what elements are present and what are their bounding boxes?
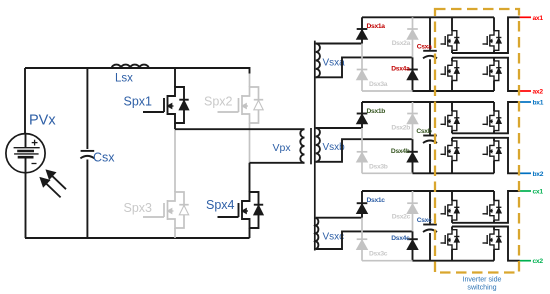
svg-text:Dsx1a: Dsx1a	[367, 23, 386, 30]
wire left rail upper	[24, 68, 26, 134]
mosfet inverter b cell2 left	[451, 138, 453, 141]
wire dc+ rail b	[362, 101, 494, 103]
mosfet inverter b cell2 right	[493, 138, 495, 141]
diode Dsx2a	[412, 17, 414, 57]
svg-text:Dsx4c: Dsx4c	[391, 235, 410, 242]
svg-text:Csxc: Csxc	[417, 217, 432, 224]
wire cell2 b top rail	[452, 137, 494, 139]
wire cell2 c top rail	[452, 226, 494, 228]
wire dc- rail b grey	[362, 172, 413, 174]
svg-text:Dsx2b: Dsx2b	[391, 125, 410, 132]
svg-text:Spx2: Spx2	[204, 95, 233, 109]
mosfet inverter b cell1 left	[451, 102, 453, 111]
terminal ax2	[520, 90, 531, 92]
transformer core inner line	[310, 128, 312, 164]
diode Dsx2c	[412, 191, 414, 231]
terminal ax1	[520, 16, 531, 18]
capacitor Csxb	[429, 102, 431, 135]
svg-text:PVx: PVx	[29, 113, 56, 129]
dashed box inverter side switching	[435, 9, 519, 273]
svg-text:switching: switching	[467, 284, 496, 292]
mosfet inverter c cell1 left	[451, 191, 453, 201]
svg-text:Dsx3c: Dsx3c	[369, 251, 388, 258]
wire output tap ax1	[494, 17, 520, 53]
mosfet inverter a cell2 right	[493, 58, 495, 61]
svg-text:Spx1: Spx1	[124, 95, 153, 109]
diode Dsx3b	[361, 128, 363, 173]
wire dc- rail b black	[413, 172, 495, 174]
svg-text:Dsx3b: Dsx3b	[369, 163, 388, 170]
pv light arrow 1	[51, 175, 66, 189]
svg-text:cx2: cx2	[533, 258, 544, 265]
svg-text:Lsx: Lsx	[115, 73, 133, 85]
mosfet inverter a cell1 right	[493, 17, 495, 30]
svg-text:Spx4: Spx4	[206, 198, 235, 212]
mosfet Spx3	[174, 129, 176, 192]
svg-text:Csxa: Csxa	[417, 43, 432, 50]
wire cell1 b bottom rail	[452, 132, 494, 134]
svg-text:bx1: bx1	[533, 100, 544, 107]
pv source PVx	[6, 134, 45, 173]
diode Dsx4b	[412, 139, 414, 173]
transformer core outer line	[314, 41, 316, 251]
svg-text:ax1: ax1	[533, 15, 544, 22]
diode Dsx1b	[361, 102, 363, 128]
terminal cx1	[520, 190, 531, 192]
terminal cx2	[520, 260, 531, 262]
diode Dsx2b	[412, 102, 414, 139]
wire output tap ax2	[494, 58, 520, 91]
wire output tap cx2	[494, 227, 520, 261]
inductor Lsx	[112, 65, 149, 68]
diode Dsx1a	[361, 17, 363, 43]
capacitor Csxa	[429, 17, 431, 50]
svg-text:Dsx4a: Dsx4a	[391, 66, 410, 73]
svg-text:Dsx4b: Dsx4b	[391, 148, 410, 155]
transformer primary winding Vpx	[300, 129, 304, 163]
diode Dsx1c	[361, 191, 363, 218]
svg-text:bx2: bx2	[533, 171, 544, 178]
mosfet inverter b cell1 right	[493, 102, 495, 111]
wire cell1 c bottom rail	[452, 222, 494, 224]
svg-text:Vsxc: Vsxc	[323, 232, 345, 243]
wire output tap cx1	[494, 191, 520, 223]
pv light arrow 2	[45, 183, 60, 198]
svg-text:Csxb: Csxb	[416, 128, 431, 135]
wire secondary c top lead	[316, 217, 362, 219]
svg-text:Spx3: Spx3	[124, 201, 153, 215]
mosfet inverter c cell2 right	[493, 227, 495, 230]
mosfet inverter c cell1 right	[493, 191, 495, 201]
terminal bx2	[520, 172, 531, 174]
wire dc- rail c grey	[362, 260, 413, 262]
mosfet inverter a cell2 left	[451, 58, 453, 61]
capacitor Csx	[86, 68, 88, 149]
svg-text:Dsx1c: Dsx1c	[367, 197, 386, 204]
transformer secondary winding Vsxa	[316, 44, 320, 78]
mosfet inverter a cell1 left	[451, 17, 453, 30]
svg-text:ax2: ax2	[533, 89, 544, 96]
wire dc+ rail a	[362, 16, 494, 18]
svg-text:Dsx2a: Dsx2a	[392, 40, 411, 47]
wire bottom rail	[25, 237, 250, 239]
diode Dsx3a	[361, 44, 363, 92]
svg-text:cx1: cx1	[533, 189, 544, 196]
svg-text:Dsx2c: Dsx2c	[392, 214, 411, 221]
wire dc- rail a black	[413, 90, 495, 92]
wire dc- rail c black	[413, 260, 495, 262]
diode Dsx4a	[412, 57, 414, 91]
mosfet Spx1	[174, 68, 176, 87]
wire secondary a top lead	[316, 43, 362, 45]
wire secondary c bottom lead	[316, 231, 413, 249]
wire dc- rail a grey	[362, 90, 413, 92]
svg-text:Dsx3a: Dsx3a	[369, 81, 388, 88]
wire cell1 a bottom rail	[452, 52, 494, 54]
transformer secondary winding Vsxb	[316, 128, 320, 162]
terminal bx1	[520, 101, 531, 103]
wire left rail lower	[25, 173, 27, 238]
mosfet Spx2	[249, 74, 251, 88]
mosfet inverter c cell2 left	[451, 227, 453, 230]
diode Dsx3c	[361, 218, 363, 261]
wire secondary a bottom lead	[316, 57, 413, 77]
wire secondary b top lead	[316, 127, 362, 129]
wire secondary b bottom lead	[316, 139, 413, 162]
diode Dsx4c	[412, 231, 414, 260]
wire dc+ rail c	[362, 190, 494, 192]
svg-text:Vpx: Vpx	[273, 142, 292, 154]
svg-text:Csx: Csx	[93, 151, 115, 165]
wire output tap bx1	[494, 102, 520, 133]
capacitor Csxc	[429, 191, 431, 224]
transformer secondary winding Vsxc	[316, 218, 319, 249]
wire top rail	[25, 68, 250, 74]
svg-text:Dsx1b: Dsx1b	[367, 108, 386, 115]
wire cell2 a top rail	[452, 57, 494, 59]
wire primary top	[175, 128, 305, 130]
mosfet Spx4	[249, 163, 251, 192]
svg-text:Inverter side: Inverter side	[462, 276, 501, 284]
wire output tap bx2	[494, 138, 520, 174]
wire primary bottom	[250, 162, 305, 164]
